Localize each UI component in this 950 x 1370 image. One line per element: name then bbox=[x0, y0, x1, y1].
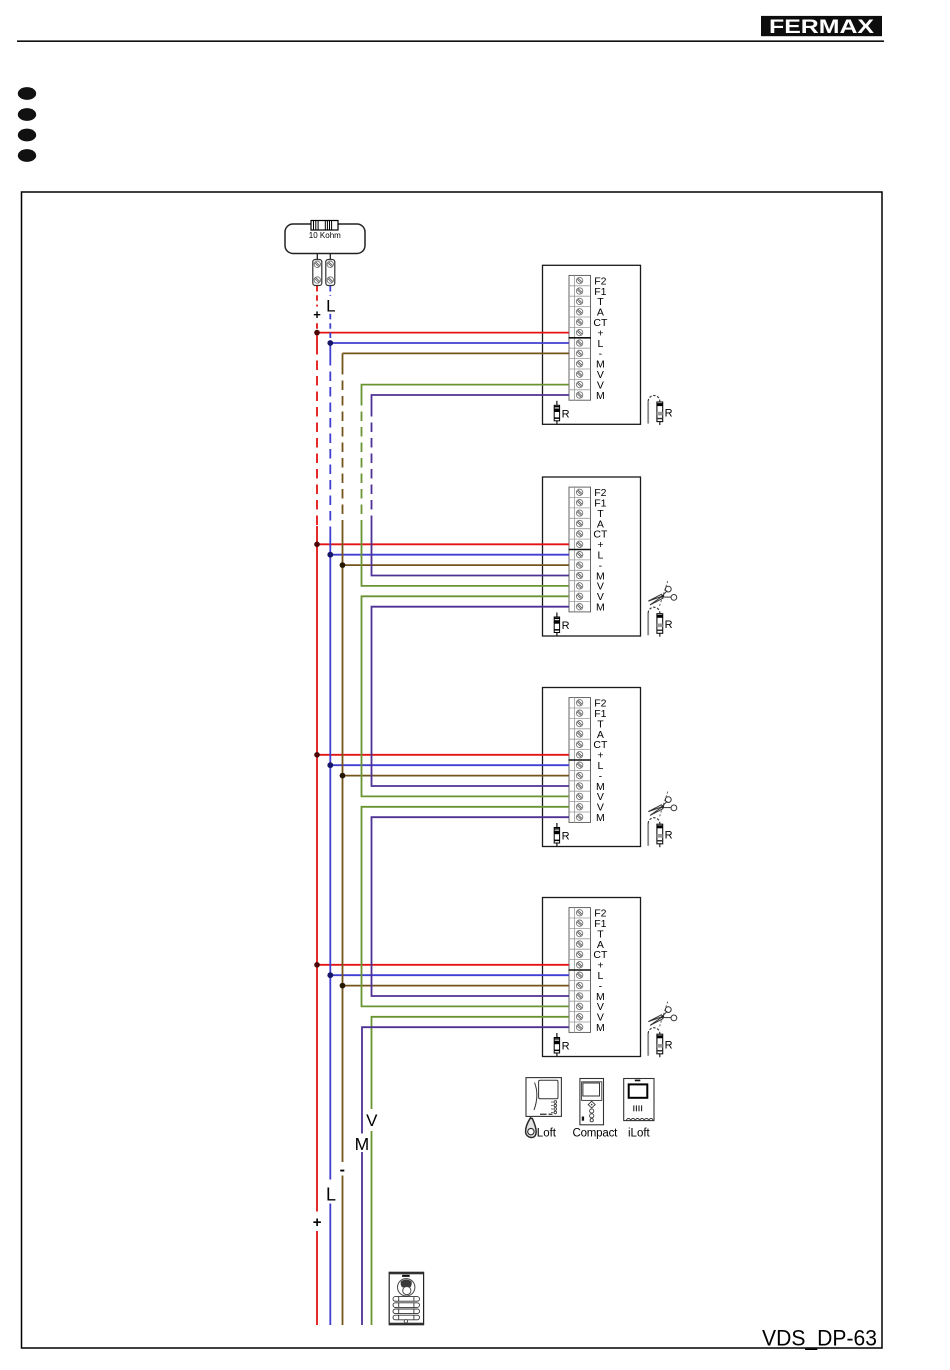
wire V link block3-block4 bbox=[362, 807, 570, 1007]
hook resistor block 3 bbox=[648, 818, 672, 848]
wire + branch block 4 bbox=[317, 964, 569, 966]
wire minus riser solid bbox=[342, 353, 344, 1325]
svg-text:L: L bbox=[326, 1185, 336, 1205]
wire L branch block 1 bbox=[330, 342, 569, 344]
street panel icon bbox=[389, 1272, 423, 1324]
wire + branch block 1 bbox=[317, 332, 569, 334]
wire + riser solid bbox=[316, 333, 318, 1325]
hook resistor block 1 bbox=[648, 396, 672, 426]
svg-text:VDS_DP-63: VDS_DP-63 bbox=[762, 1326, 877, 1351]
wire M link block1-block2 bbox=[372, 395, 570, 407]
scissors block 3 bbox=[648, 792, 677, 818]
wire L branch block 2 bbox=[330, 554, 569, 556]
Loft handset bbox=[526, 1116, 537, 1137]
monitor block 4 bbox=[543, 898, 641, 1057]
wire minus branch block 2 bbox=[343, 564, 570, 566]
end-of-line loop wire bbox=[285, 224, 365, 254]
svg-text:+: + bbox=[313, 1214, 322, 1231]
FERMAX logo bbox=[761, 16, 882, 38]
monitor block 1 bbox=[543, 265, 641, 424]
bullet 3 bbox=[18, 129, 36, 142]
junction + block 4 bbox=[314, 962, 320, 968]
svg-text:Compact: Compact bbox=[573, 1128, 619, 1140]
svg-text:Loft: Loft bbox=[537, 1128, 557, 1140]
iLoft monitor icon bbox=[624, 1079, 654, 1121]
wire + riser dashed section bbox=[316, 345, 318, 526]
diagram frame bbox=[22, 192, 883, 1348]
header rule bbox=[17, 40, 884, 42]
wire V link block1-block2 bbox=[362, 385, 570, 396]
bullet 2 bbox=[18, 108, 36, 121]
monitor block 3 bbox=[543, 688, 641, 847]
svg-text:iLoft: iLoft bbox=[628, 1128, 651, 1140]
scissors block 2 bbox=[648, 581, 677, 607]
wire M link block2-block3 bbox=[372, 607, 570, 786]
svg-text:L: L bbox=[326, 297, 335, 316]
junction + block 1 bbox=[314, 330, 320, 336]
terminal connector right bbox=[326, 260, 335, 286]
hook resistor block 4 bbox=[648, 1028, 672, 1058]
junction + block 3 bbox=[314, 752, 320, 758]
wire minus branch block 4 bbox=[343, 985, 570, 987]
Loft monitor icon bbox=[526, 1078, 561, 1117]
terminal connector left bbox=[313, 260, 322, 286]
wire minus branch block 1 bbox=[343, 352, 570, 354]
wire minus branch block 3 bbox=[343, 775, 570, 777]
svg-text:+: + bbox=[313, 307, 321, 322]
svg-text:-: - bbox=[340, 1162, 345, 1179]
label backgrounds bbox=[311, 296, 379, 1231]
wire M link block3-block4 bbox=[372, 817, 570, 996]
junction L block 3 bbox=[327, 762, 333, 768]
wire M link block4-street bbox=[362, 1027, 569, 1325]
svg-text:FERMAX: FERMAX bbox=[769, 17, 874, 38]
junction minus block 4 bbox=[340, 983, 346, 989]
hook resistor block 2 bbox=[648, 607, 672, 637]
wire L riser top dashed bbox=[329, 286, 331, 343]
wire + branch block 2 bbox=[317, 543, 569, 545]
junction L block 1 bbox=[327, 340, 333, 346]
lead right bbox=[329, 254, 331, 261]
Compact monitor icon bbox=[580, 1079, 604, 1125]
junction minus block 2 bbox=[340, 562, 346, 568]
wire L branch block 4 bbox=[330, 974, 569, 976]
junction + block 2 bbox=[314, 542, 320, 548]
svg-text:V: V bbox=[366, 1111, 378, 1130]
bullet 4 bbox=[18, 149, 36, 162]
monitor block 2 bbox=[543, 477, 641, 636]
lead left bbox=[316, 254, 318, 261]
wire minus riser dashed section bbox=[342, 365, 344, 527]
wire L branch block 3 bbox=[330, 764, 569, 766]
junction L block 2 bbox=[327, 552, 333, 558]
scissors block 4 bbox=[648, 1002, 677, 1028]
junction L block 4 bbox=[327, 972, 333, 978]
wire V link block2-block3 bbox=[362, 596, 570, 796]
junction minus block 3 bbox=[340, 773, 346, 779]
wire L riser dashed section bbox=[329, 356, 331, 527]
svg-text:M: M bbox=[355, 1134, 370, 1154]
wire + branch block 3 bbox=[317, 754, 569, 756]
resistor R 10 Kohm bbox=[311, 221, 338, 231]
wire + riser top dashed bbox=[316, 286, 318, 333]
wire V link block4-street bbox=[372, 1017, 570, 1325]
wire L riser solid bbox=[329, 343, 331, 1325]
svg-text:10 Kohm: 10 Kohm bbox=[309, 231, 341, 240]
bullet 1 bbox=[18, 87, 36, 100]
